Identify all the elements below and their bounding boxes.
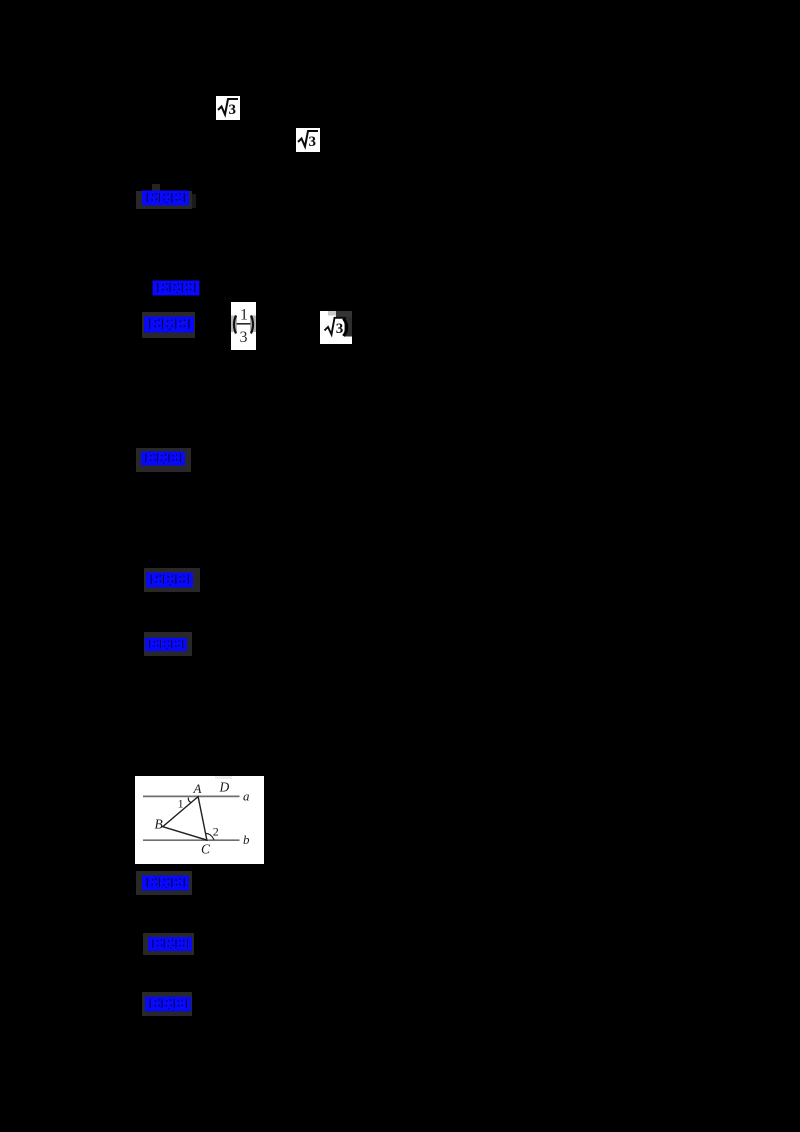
label L9 blue — [145, 996, 191, 1012]
svg-text:3: 3 — [309, 134, 317, 150]
label L8 blue — [148, 936, 192, 952]
formula image sqrt(3) #3 with paren — [320, 311, 352, 344]
label L3 highlight — [142, 312, 195, 338]
label L4 highlight — [136, 448, 191, 472]
label L1 highlight — [136, 191, 192, 209]
svg-text:1: 1 — [178, 796, 184, 810]
line a — [143, 795, 240, 797]
line b — [143, 839, 240, 841]
svg-text:3: 3 — [240, 329, 248, 346]
label L6 blue — [145, 637, 187, 652]
label L3 blue — [144, 316, 194, 333]
svg-text:B: B — [155, 816, 163, 831]
label L7 highlight — [136, 871, 192, 895]
formula image sqrt(3) #1 — [216, 96, 240, 120]
shared defs for blue label blob — [0, 0, 1, 1]
svg-text:3: 3 — [336, 321, 344, 337]
label L5 blue — [146, 572, 193, 588]
angle 2 arc at C — [206, 833, 214, 840]
label L9 highlight — [142, 992, 192, 1016]
geometry figure — [135, 776, 264, 864]
formula image (1/3) — [231, 302, 256, 350]
label L7 blue — [142, 875, 189, 891]
faint top shading — [215, 776, 232, 779]
label L1 blue — [142, 190, 189, 206]
angle 1 arc at A — [188, 798, 191, 803]
label L4 blue — [140, 451, 186, 466]
label L8 highlight — [143, 933, 194, 955]
svg-text:D: D — [219, 779, 230, 794]
formula image sqrt(3) #2 — [296, 128, 320, 152]
label L5 highlight — [144, 568, 200, 592]
label L6 highlight — [144, 632, 192, 656]
svg-text:b: b — [243, 832, 250, 847]
label L2 blue — [152, 280, 200, 296]
svg-text:A: A — [193, 781, 202, 796]
svg-text:3: 3 — [229, 102, 237, 118]
svg-text:C: C — [201, 842, 211, 857]
svg-text:1: 1 — [240, 307, 248, 324]
svg-text:a: a — [243, 789, 250, 804]
triangle ABC — [163, 797, 207, 841]
svg-text:2: 2 — [213, 825, 219, 839]
